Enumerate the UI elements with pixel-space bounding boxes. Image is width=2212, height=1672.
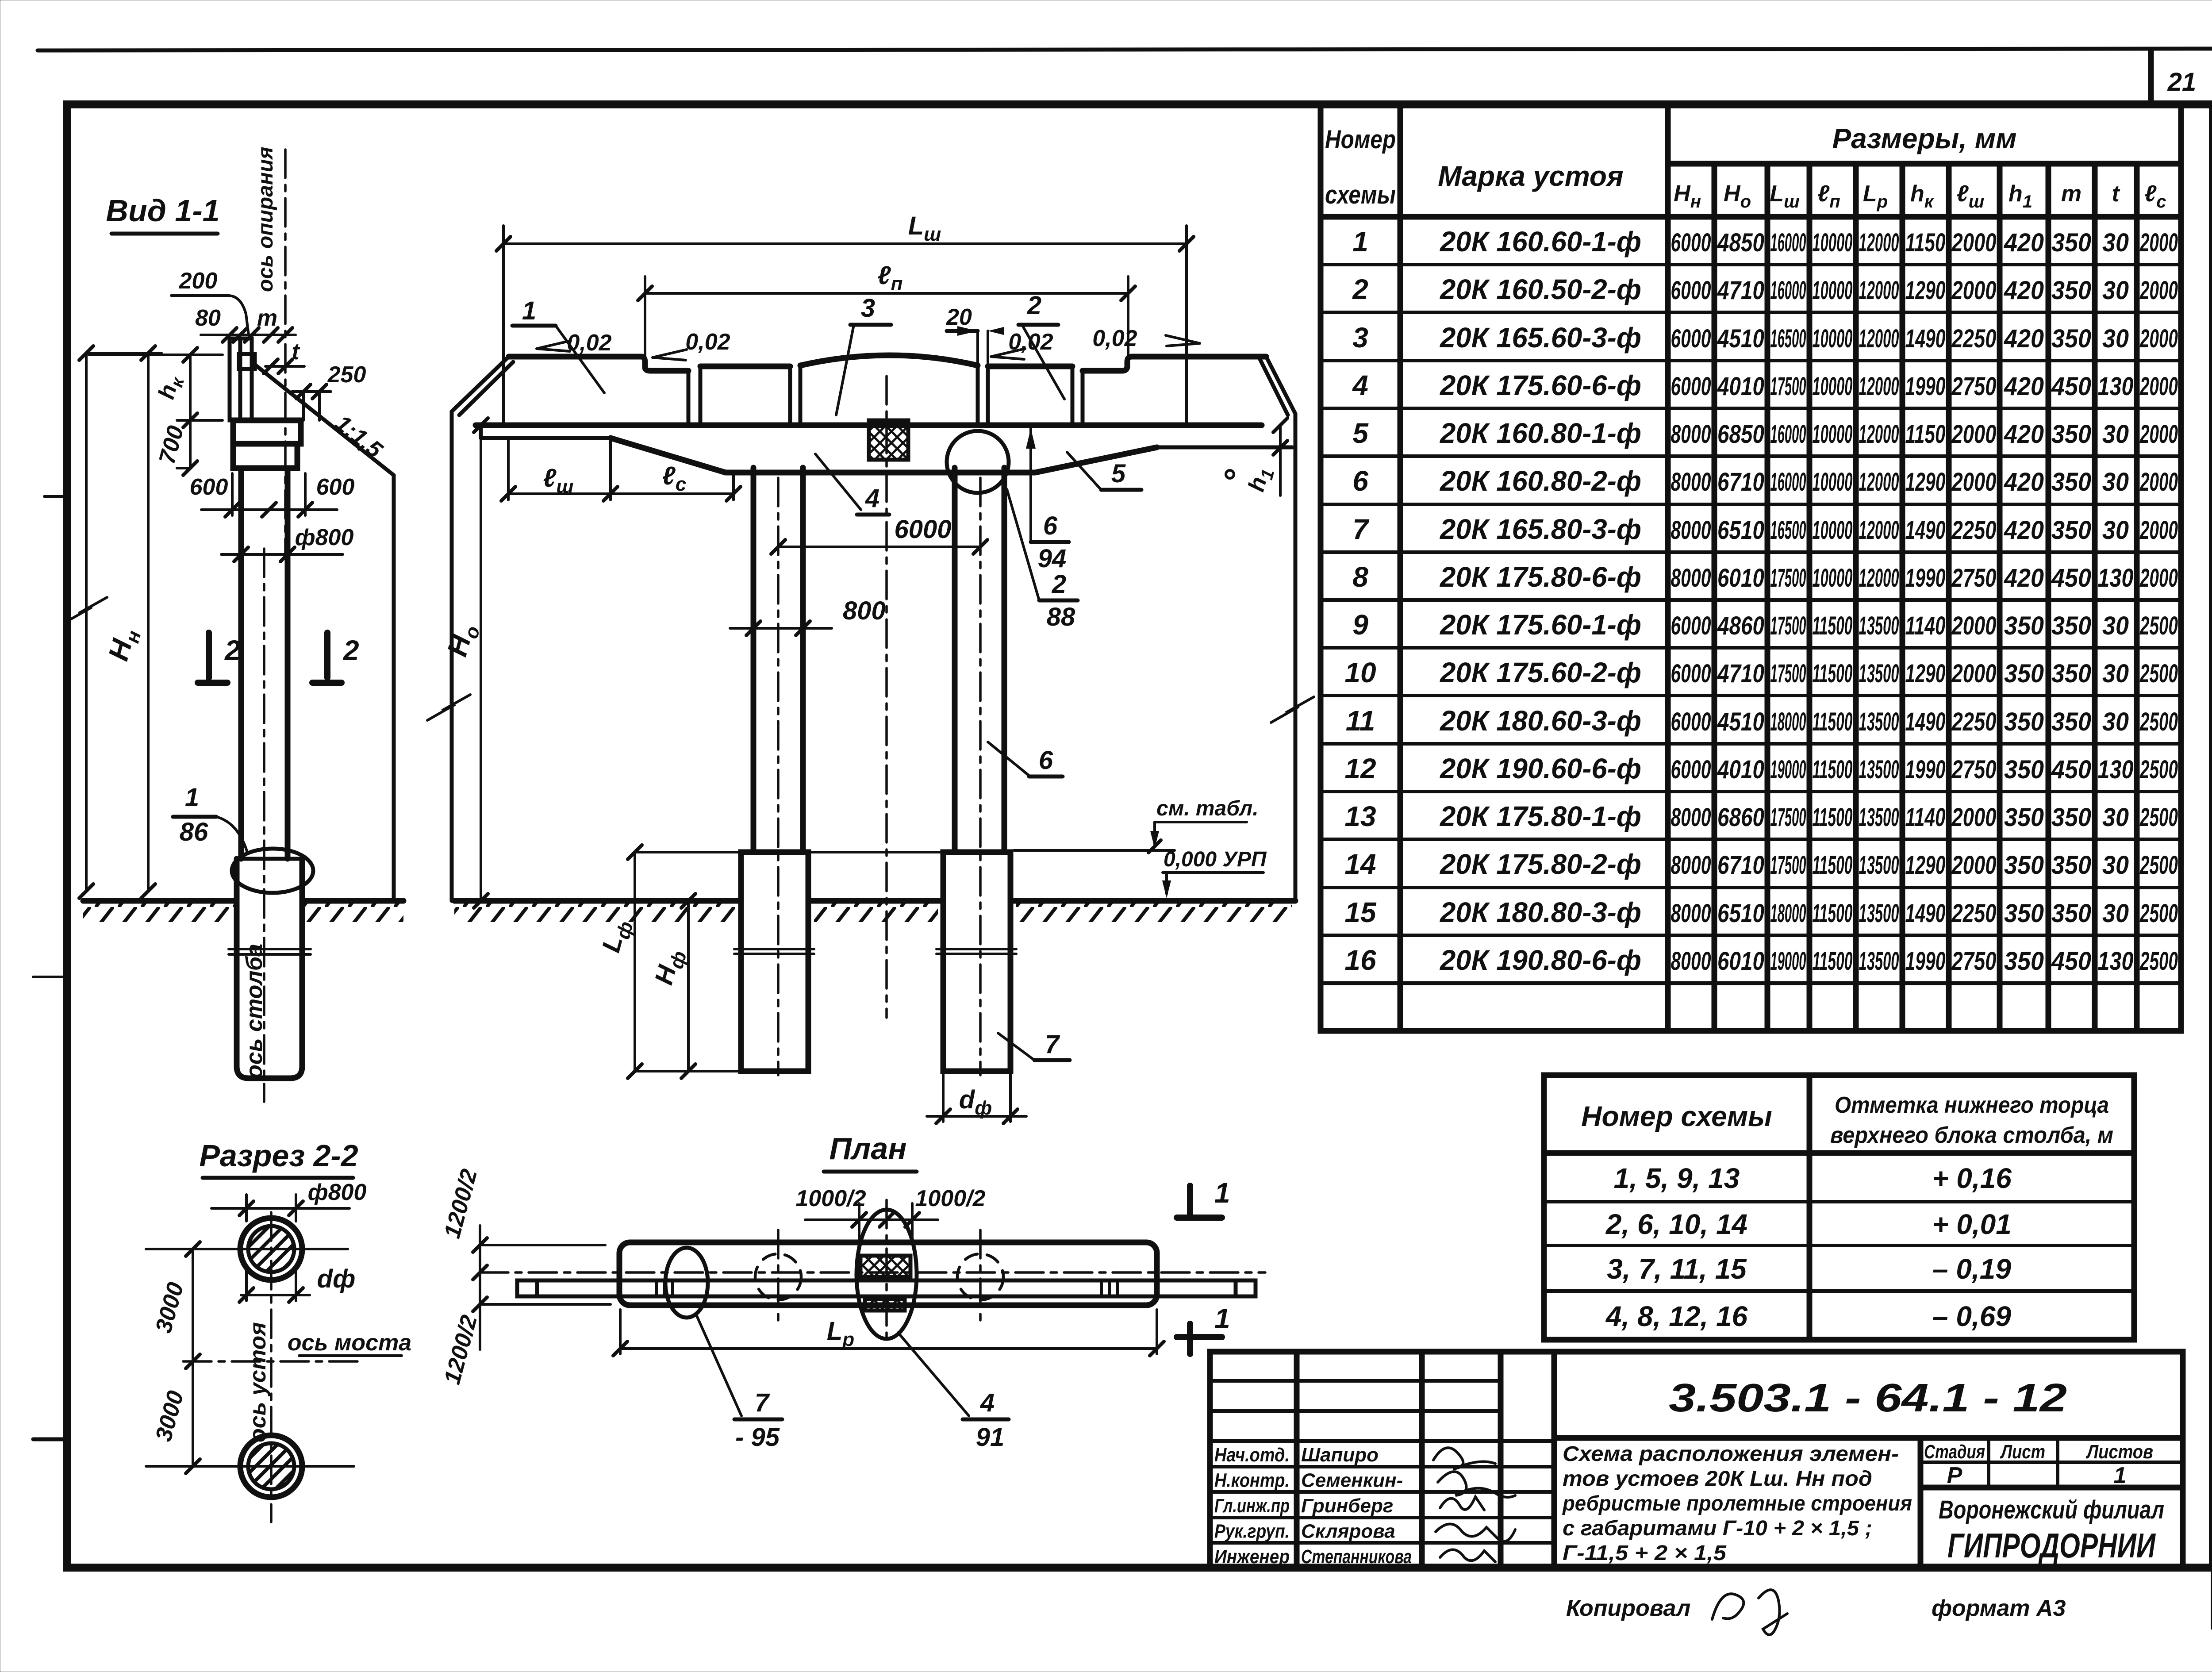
svg-text:420: 420 — [2004, 564, 2044, 592]
svg-text:20К 160.50-2-ф: 20К 160.50-2-ф — [1440, 273, 1641, 305]
svg-text:m: m — [2061, 181, 2081, 207]
svg-text:2750: 2750 — [1951, 755, 1997, 784]
svg-text:350: 350 — [2051, 659, 2091, 688]
plan centre hatch — [860, 1256, 910, 1277]
svg-text:9: 9 — [1352, 609, 1368, 641]
svg-text:2000: 2000 — [1951, 851, 1997, 880]
svg-text:ℓш: ℓш — [1957, 181, 1984, 211]
svg-text:1150: 1150 — [1905, 420, 1946, 449]
svg-text:6000: 6000 — [1671, 659, 1711, 688]
svg-text:6: 6 — [1039, 746, 1053, 775]
svg-text:1: 1 — [185, 783, 199, 812]
svg-text:16: 16 — [1344, 944, 1376, 976]
svg-text:20К 175.80-6-ф: 20К 175.80-6-ф — [1440, 561, 1641, 593]
svg-text:11500: 11500 — [1813, 755, 1853, 784]
svg-text:+ 0,01: + 0,01 — [1932, 1208, 2012, 1240]
svg-text:30: 30 — [2102, 659, 2129, 688]
svg-text:13500: 13500 — [1859, 803, 1899, 832]
svg-text:13: 13 — [1344, 800, 1376, 832]
plan centre ellipse callout — [856, 1210, 917, 1339]
svg-text:Но: Но — [441, 620, 484, 661]
svg-text:94: 94 — [1038, 544, 1067, 573]
svg-text:Гл.инж.пр: Гл.инж.пр — [1214, 1495, 1290, 1517]
svg-text:1490: 1490 — [1905, 899, 1946, 928]
svg-text:5: 5 — [1352, 417, 1369, 449]
svg-text:0,02: 0,02 — [685, 329, 730, 355]
svg-text:30: 30 — [2102, 707, 2129, 736]
svg-text:10000: 10000 — [1813, 324, 1853, 353]
svg-text:7: 7 — [1045, 1030, 1060, 1059]
svg-text:20К 175.60-1-ф: 20К 175.60-1-ф — [1440, 609, 1641, 641]
svg-text:21: 21 — [2167, 68, 2197, 96]
svg-text:4010: 4010 — [1717, 755, 1764, 784]
column axis — [263, 549, 265, 1102]
svg-text:10000: 10000 — [1813, 468, 1853, 496]
foundation joint lines — [734, 948, 814, 950]
svg-text:12000: 12000 — [1859, 324, 1899, 353]
svg-text:350: 350 — [2004, 707, 2044, 736]
svg-text:600: 600 — [190, 474, 228, 500]
svg-text:20К 180.80-3-ф: 20К 180.80-3-ф — [1440, 896, 1641, 928]
callout 4 — [815, 454, 861, 510]
svg-text:12000: 12000 — [1859, 276, 1899, 305]
svg-text:ф800: ф800 — [308, 1180, 367, 1205]
pile below — [237, 859, 302, 1078]
foundation top level line stub — [1014, 849, 1175, 852]
svg-text:13500: 13500 — [1859, 947, 1899, 976]
bearing pad small — [239, 354, 255, 369]
svg-text:700: 700 — [154, 423, 188, 467]
svg-text:Разрез 2-2: Разрез 2-2 — [199, 1138, 358, 1173]
dim df — [241, 1294, 310, 1296]
svg-text:Воронежский филиал: Воронежский филиал — [1939, 1495, 2164, 1524]
svg-text:350: 350 — [2004, 611, 2044, 640]
svg-text:1: 1 — [522, 296, 536, 325]
svg-text:420: 420 — [2004, 372, 2044, 401]
svg-text:8000: 8000 — [1671, 851, 1711, 880]
svg-text:ось моста: ось моста — [288, 1330, 411, 1356]
svg-text:2750: 2750 — [1951, 372, 1997, 401]
dim lp — [645, 292, 1128, 295]
callout 5 — [1067, 452, 1101, 490]
svg-text:350: 350 — [2051, 803, 2091, 832]
svg-text:4010: 4010 — [1717, 372, 1764, 401]
svg-text:h1: h1 — [1244, 465, 1279, 496]
svg-text:dф: dф — [959, 1085, 992, 1119]
svg-text:2000: 2000 — [1951, 420, 1997, 449]
svg-text:2000: 2000 — [2139, 516, 2178, 545]
svg-text:Марка устоя: Марка устоя — [1438, 160, 1623, 192]
callout 4/91 — [898, 1333, 969, 1416]
superstructure left wing — [452, 357, 509, 411]
svg-text:1: 1 — [2114, 1463, 2127, 1488]
top pile circle — [240, 1218, 302, 1280]
svg-text:+ 0,16: + 0,16 — [1932, 1162, 2012, 1194]
svg-text:250: 250 — [327, 362, 366, 388]
svg-text:1000/2: 1000/2 — [915, 1186, 985, 1211]
svg-text:130: 130 — [2098, 372, 2134, 401]
svg-text:Номер схемы: Номер схемы — [1581, 1100, 1772, 1132]
svg-text:8000: 8000 — [1671, 564, 1711, 592]
svg-text:верхнего блока столба, м: верхнего блока столба, м — [1830, 1122, 2113, 1148]
frame left centering tick — [33, 1438, 67, 1441]
svg-text:350: 350 — [2004, 947, 2044, 976]
svg-text:350: 350 — [2051, 899, 2091, 928]
svg-text:350: 350 — [2004, 659, 2044, 688]
svg-text:Склярова: Склярова — [1301, 1521, 1395, 1542]
svg-text:2500: 2500 — [2139, 947, 2178, 976]
superstructure right wing — [1266, 357, 1295, 414]
svg-text:30: 30 — [2102, 851, 2129, 880]
dim 600+600 — [201, 508, 337, 511]
svg-text:2000: 2000 — [2139, 468, 2178, 496]
svg-text:11500: 11500 — [1813, 803, 1853, 832]
dim 80 m line — [201, 334, 296, 336]
svg-text:ℓш: ℓш — [543, 464, 573, 497]
svg-text:4860: 4860 — [1717, 611, 1764, 640]
svg-text:Номер: Номер — [1325, 125, 1396, 154]
pile joint ellipse — [232, 849, 313, 893]
svg-text:11500: 11500 — [1813, 947, 1853, 976]
svg-text:30: 30 — [2102, 228, 2129, 257]
svg-text:1490: 1490 — [1905, 516, 1946, 545]
svg-text:2250: 2250 — [1951, 324, 1997, 353]
cap block lower — [233, 444, 297, 468]
svg-text:1290: 1290 — [1905, 468, 1946, 496]
svg-text:350: 350 — [2051, 707, 2091, 736]
svg-text:130: 130 — [2098, 564, 2134, 592]
plan left ellipse callout — [665, 1248, 708, 1318]
svg-text:12000: 12000 — [1859, 228, 1899, 257]
svg-text:6000: 6000 — [1671, 276, 1711, 305]
svg-text:2500: 2500 — [2139, 755, 2178, 784]
svg-text:6000: 6000 — [1671, 372, 1711, 401]
callout 6 column — [988, 742, 1029, 776]
svg-text:6510: 6510 — [1717, 516, 1764, 545]
svg-text:2000: 2000 — [2139, 420, 2178, 449]
svg-text:450: 450 — [2051, 372, 2091, 401]
svg-text:hк: hк — [1910, 181, 1934, 211]
svg-text:13500: 13500 — [1859, 707, 1899, 736]
svg-text:350: 350 — [2004, 851, 2044, 880]
slope line 1:1.5 — [255, 365, 394, 475]
svg-text:1: 1 — [1352, 226, 1368, 258]
section marks 1-1 plan — [1187, 1186, 1193, 1216]
foundations elevation — [741, 852, 808, 1071]
page number box 21 — [2148, 50, 2154, 104]
svg-text:2: 2 — [1027, 291, 1041, 320]
svg-text:19000: 19000 — [1770, 755, 1806, 784]
svg-text:Но: Но — [1724, 181, 1751, 211]
svg-text:10000: 10000 — [1813, 516, 1853, 545]
svg-text:20К 160.80-1-ф: 20К 160.80-1-ф — [1440, 417, 1641, 449]
bridge axis — [183, 1360, 362, 1363]
svg-text:450: 450 — [2051, 947, 2091, 976]
dim lsh lc — [507, 438, 510, 500]
svg-text:800: 800 — [843, 596, 886, 625]
dim t — [265, 365, 304, 368]
svg-text:6000: 6000 — [1671, 611, 1711, 640]
svg-text:2250: 2250 — [1951, 516, 1997, 545]
svg-text:350: 350 — [2004, 899, 2044, 928]
dim 700 — [189, 420, 192, 468]
svg-text:20К 165.80-3-ф: 20К 165.80-3-ф — [1440, 513, 1641, 545]
dim 800 — [730, 627, 832, 630]
svg-text:2: 2 — [343, 634, 359, 666]
svg-text:1990: 1990 — [1905, 947, 1946, 976]
svg-text:1290: 1290 — [1905, 851, 1946, 880]
svg-text:1290: 1290 — [1905, 276, 1946, 305]
svg-text:ℓс: ℓс — [662, 461, 686, 495]
cabinet wall block — [230, 338, 252, 420]
node circle — [947, 431, 1009, 493]
svg-text:ℓп: ℓп — [1817, 181, 1840, 211]
svg-text:11500: 11500 — [1813, 899, 1853, 928]
svg-text:6010: 6010 — [1717, 947, 1764, 976]
svg-text:20К 160.60-1-ф: 20К 160.60-1-ф — [1440, 226, 1641, 258]
svg-text:420: 420 — [2004, 276, 2044, 305]
dim df elevation — [942, 1071, 945, 1122]
dim 3000 upper — [192, 1249, 194, 1361]
svg-text:13500: 13500 — [1859, 659, 1899, 688]
dim Nf — [687, 901, 690, 1071]
svg-text:12: 12 — [1344, 753, 1376, 784]
svg-text:350: 350 — [2004, 755, 2044, 784]
svg-text:6000: 6000 — [894, 515, 951, 544]
ground line left drawing — [83, 898, 236, 904]
circle centerlines — [194, 1248, 348, 1250]
svg-text:1200/2: 1200/2 — [439, 1312, 482, 1387]
svg-text:20К 165.60-3-ф: 20К 165.60-3-ф — [1440, 322, 1641, 354]
svg-text:- 95: - 95 — [735, 1423, 780, 1452]
svg-text:Размеры, мм: Размеры, мм — [1832, 123, 2016, 154]
svg-text:10: 10 — [1344, 657, 1376, 688]
svg-text:200: 200 — [179, 268, 218, 294]
svg-text:20К 175.60-6-ф: 20К 175.60-6-ф — [1440, 369, 1641, 401]
svg-text:1990: 1990 — [1905, 372, 1946, 401]
svg-text:3000: 3000 — [151, 1280, 189, 1336]
svg-text:2500: 2500 — [2139, 659, 2178, 688]
svg-text:30: 30 — [2102, 611, 2129, 640]
svg-text:1490: 1490 — [1905, 324, 1946, 353]
svg-text:2750: 2750 — [1951, 564, 1997, 592]
svg-text:2000: 2000 — [1951, 228, 1997, 257]
small circle mark — [1226, 470, 1234, 478]
svg-text:420: 420 — [2004, 324, 2044, 353]
svg-text:1150: 1150 — [1905, 228, 1946, 257]
svg-text:1: 1 — [1214, 1303, 1230, 1334]
svg-text:1000/2: 1000/2 — [795, 1186, 866, 1211]
svg-text:18000: 18000 — [1770, 899, 1806, 928]
stage/sheet cells — [1918, 1438, 1924, 1568]
svg-text:Степанникова: Степанникова — [1301, 1546, 1412, 1568]
svg-text:– 0,19: – 0,19 — [1932, 1253, 2011, 1285]
strip joint ticks — [655, 1280, 658, 1296]
svg-text:4710: 4710 — [1717, 659, 1764, 688]
svg-text:1140: 1140 — [1905, 803, 1946, 832]
svg-text:Отметка нижнего торца: Отметка нижнего торца — [1835, 1092, 2109, 1118]
svg-text:2250: 2250 — [1951, 899, 1997, 928]
svg-text:12000: 12000 — [1859, 468, 1899, 496]
svg-text:13500: 13500 — [1859, 611, 1899, 640]
svg-text:16000: 16000 — [1770, 420, 1806, 449]
svg-text:4, 8, 12, 16: 4, 8, 12, 16 — [1605, 1300, 1748, 1332]
svg-text:Инженер: Инженер — [1214, 1546, 1290, 1568]
svg-text:420: 420 — [2004, 228, 2044, 257]
signatures squiggles — [1433, 1448, 1495, 1469]
svg-text:6000: 6000 — [1671, 755, 1711, 784]
svg-text:3, 7, 11, 15: 3, 7, 11, 15 — [1607, 1253, 1747, 1285]
svg-text:16500: 16500 — [1770, 516, 1806, 545]
svg-text:8: 8 — [1352, 561, 1368, 593]
svg-text:6860: 6860 — [1717, 803, 1764, 832]
svg-text:20К 175.80-1-ф: 20К 175.80-1-ф — [1440, 800, 1641, 832]
svg-text:Р: Р — [1947, 1463, 1962, 1488]
svg-text:10000: 10000 — [1813, 276, 1853, 305]
dim 3000 lower — [192, 1361, 194, 1466]
svg-text:2500: 2500 — [2139, 611, 2178, 640]
callout 6/94 — [1029, 425, 1032, 542]
svg-text:Копировал: Копировал — [1566, 1595, 1690, 1621]
columns elevation — [751, 468, 757, 852]
svg-text:Вид 1-1: Вид 1-1 — [106, 193, 219, 228]
svg-text:7: 7 — [755, 1388, 770, 1417]
plan axis — [480, 1271, 1265, 1274]
svg-text:20К 190.80-6-ф: 20К 190.80-6-ф — [1440, 944, 1641, 976]
svg-text:20: 20 — [946, 304, 972, 330]
svg-text:ось столба: ось столба — [242, 944, 267, 1079]
svg-text:450: 450 — [2051, 755, 2091, 784]
svg-text:17500: 17500 — [1770, 803, 1806, 832]
plan body bar — [619, 1242, 1157, 1305]
svg-text:Нн: Нн — [1674, 181, 1701, 211]
svg-text:30: 30 — [2102, 803, 2129, 832]
svg-text:2500: 2500 — [2139, 851, 2178, 880]
svg-text:m: m — [257, 305, 277, 331]
svg-text:600: 600 — [316, 474, 355, 500]
svg-text:Нф: Нф — [649, 946, 691, 989]
svg-text:Гринберг: Гринберг — [1301, 1495, 1393, 1517]
svg-text:3: 3 — [1352, 322, 1368, 354]
svg-text:91: 91 — [976, 1423, 1005, 1452]
svg-text:10000: 10000 — [1813, 564, 1853, 592]
svg-text:4: 4 — [1352, 369, 1368, 401]
svg-text:11500: 11500 — [1813, 707, 1853, 736]
right slope edge — [1294, 414, 1298, 901]
svg-text:2750: 2750 — [1951, 947, 1997, 976]
svg-text:6510: 6510 — [1717, 899, 1764, 928]
svg-text:1290: 1290 — [1905, 659, 1946, 688]
plan thin wall strip — [517, 1279, 1256, 1283]
ground line central — [454, 898, 741, 904]
dim 6000 — [778, 546, 980, 548]
svg-text:17500: 17500 — [1770, 659, 1806, 688]
svg-text:350: 350 — [2051, 611, 2091, 640]
svg-text:350: 350 — [2051, 276, 2091, 305]
svg-text:6000: 6000 — [1671, 228, 1711, 257]
svg-text:1140: 1140 — [1905, 611, 1946, 640]
svg-text:420: 420 — [2004, 468, 2044, 496]
svg-text:88: 88 — [1047, 603, 1075, 631]
sheet top edge line — [38, 49, 2212, 50]
svg-text:Схема расположения элемен-: Схема расположения элемен- — [1563, 1442, 1899, 1466]
svg-text:20К 175.60-2-ф: 20К 175.60-2-ф — [1440, 657, 1641, 688]
svg-text:2000: 2000 — [1951, 276, 1997, 305]
svg-text:4: 4 — [865, 484, 879, 513]
svg-text:2000: 2000 — [1951, 468, 1997, 496]
svg-text:420: 420 — [2004, 420, 2044, 449]
svg-text:1990: 1990 — [1905, 564, 1946, 592]
svg-text:13500: 13500 — [1859, 755, 1899, 784]
svg-text:350: 350 — [2051, 420, 2091, 449]
svg-text:30: 30 — [2102, 468, 2129, 496]
svg-text:20К 180.60-3-ф: 20К 180.60-3-ф — [1440, 705, 1641, 737]
svg-text:2000: 2000 — [1951, 611, 1997, 640]
svg-text:ℓс: ℓс — [2144, 181, 2166, 211]
svg-text:1990: 1990 — [1905, 755, 1946, 784]
svg-text:t: t — [292, 339, 300, 365]
svg-text:ГИПРОДОРНИИ: ГИПРОДОРНИИ — [1947, 1526, 2156, 1565]
title block — [1210, 1352, 2183, 1568]
svg-text:План: План — [829, 1131, 906, 1166]
bottom pile circle — [240, 1435, 302, 1497]
svg-text:30: 30 — [2102, 324, 2129, 353]
svg-text:2: 2 — [1352, 273, 1368, 305]
svg-text:350: 350 — [2051, 468, 2091, 496]
expansion joint pad — [869, 420, 908, 460]
svg-text:4510: 4510 — [1717, 707, 1764, 736]
slab centre with camber — [800, 355, 978, 365]
svg-text:6: 6 — [1352, 465, 1368, 497]
svg-text:Г-11,5 + 2 × 1,5: Г-11,5 + 2 × 1,5 — [1563, 1541, 1727, 1565]
svg-text:8000: 8000 — [1671, 516, 1711, 545]
svg-text:4710: 4710 — [1717, 276, 1764, 305]
svg-text:130: 130 — [2098, 755, 2134, 784]
svg-text:2: 2 — [224, 634, 241, 666]
svg-text:2500: 2500 — [2139, 707, 2178, 736]
hidden columns dashed — [755, 1254, 801, 1300]
svg-text:Нач.отд.: Нач.отд. — [1214, 1444, 1290, 1466]
svg-text:13500: 13500 — [1859, 899, 1899, 928]
svg-text:Шапиро: Шапиро — [1301, 1444, 1379, 1466]
svg-text:3: 3 — [861, 294, 875, 323]
svg-text:Листов: Листов — [2085, 1441, 2153, 1463]
dim hk — [89, 354, 223, 356]
svg-text:Lр: Lр — [827, 1317, 854, 1350]
svg-text:6: 6 — [1043, 511, 1058, 540]
dim Hn tall — [85, 353, 88, 891]
section marks 2-2 — [206, 633, 212, 678]
svg-text:8000: 8000 — [1671, 947, 1711, 976]
svg-text:12000: 12000 — [1859, 420, 1899, 449]
svg-text:130: 130 — [2098, 947, 2134, 976]
svg-text:12000: 12000 — [1859, 516, 1899, 545]
cap block upper — [233, 420, 301, 444]
svg-text:350: 350 — [2051, 516, 2091, 545]
big dimensions table — [1321, 105, 2181, 1031]
svg-text:20К 160.80-2-ф: 20К 160.80-2-ф — [1440, 465, 1641, 497]
dim Lp — [620, 1347, 1157, 1350]
svg-text:30: 30 — [2102, 899, 2129, 928]
svg-text:18000: 18000 — [1770, 707, 1806, 736]
svg-text:13500: 13500 — [1859, 851, 1899, 880]
svg-text:17500: 17500 — [1770, 564, 1806, 592]
svg-text:2000: 2000 — [2139, 276, 2178, 305]
svg-text:80: 80 — [195, 305, 221, 331]
svg-text:t: t — [2112, 181, 2120, 207]
svg-text:6000: 6000 — [1671, 707, 1711, 736]
svg-text:17500: 17500 — [1770, 372, 1806, 401]
